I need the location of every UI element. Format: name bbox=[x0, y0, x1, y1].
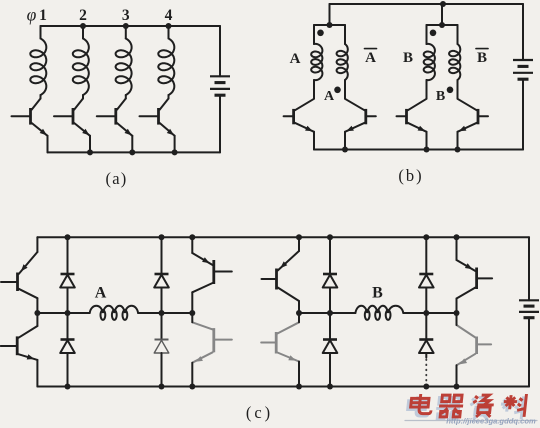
node (c) top rail junction x162 bbox=[159, 234, 165, 240]
node (a) top rail junction 4 bbox=[166, 23, 172, 29]
transistor Q2 bbox=[54, 99, 90, 136]
node (a) top rail junction 2 bbox=[80, 23, 86, 29]
node (b) bottom rail junction at Q7 bbox=[424, 147, 430, 153]
wire (b) bottom rail bbox=[314, 149, 523, 151]
wire (b) Q7 emitter drop bbox=[426, 132, 428, 150]
label 4 bbox=[165, 7, 173, 24]
wire (a) branch 4 emitter drop bbox=[174, 136, 176, 153]
wire (c) right rail lower segment bbox=[528, 318, 530, 387]
wire (b) winding A left leg lower bbox=[313, 80, 315, 99]
node (b) top rail junction at winding B bbox=[440, 1, 446, 7]
watermark shadow bbox=[407, 396, 525, 419]
diode D5 bbox=[323, 274, 338, 288]
svg-text:A: A bbox=[95, 285, 107, 302]
node (c) bottom rail junction x456 bbox=[454, 384, 460, 390]
node (c) bottom rail junction x162 bbox=[159, 384, 165, 390]
wire (c) Q15 collector lead bbox=[456, 299, 458, 314]
inductor A bbox=[90, 306, 138, 320]
node (c) top rail junction x192 bbox=[189, 234, 195, 240]
node (c) bottom rail junction x299 bbox=[296, 384, 302, 390]
node (c) bottom rail junction x68 bbox=[65, 384, 71, 390]
svg-text:2: 2 bbox=[79, 7, 87, 24]
label (c) bbox=[246, 403, 273, 422]
wire (c) Q14 collector lead bbox=[298, 313, 300, 322]
transistor Q1 bbox=[12, 99, 48, 136]
label 1 bbox=[39, 7, 47, 24]
wire (b) winding B right leg lower bbox=[457, 80, 459, 99]
battery B3 bbox=[519, 300, 539, 317]
wire (b) top rail bbox=[330, 3, 524, 5]
wire (a) branch 1 top lead bbox=[40, 26, 42, 39]
wire (c) Q13 emitter lead bbox=[298, 237, 300, 251]
wire (c) Q12 collector lead bbox=[191, 313, 193, 322]
node (b) winding A centre tap bbox=[327, 22, 333, 28]
label A (inductor A) bbox=[95, 285, 107, 302]
svg-text:B: B bbox=[372, 285, 383, 302]
label B (winding B left) bbox=[403, 50, 413, 66]
transistor Q10 bbox=[1, 326, 38, 360]
label A (winding A left) bbox=[290, 51, 301, 67]
svg-text:3: 3 bbox=[122, 7, 130, 24]
watermark red text dianqiziliao bbox=[410, 394, 528, 417]
transistor Q8 bbox=[458, 99, 489, 132]
wire (a) right rail lower segment bbox=[219, 95, 221, 152]
label 3 bbox=[122, 7, 130, 24]
wire (a) branch 2 coil-to-collector lead bbox=[82, 95, 84, 99]
node (c) middle rail junction x37 bbox=[34, 310, 40, 316]
svg-text:(c): (c) bbox=[246, 403, 273, 422]
wire (c) diode column x330 upper lead bbox=[329, 237, 331, 274]
wire (b) winding A right leg lower bbox=[344, 80, 346, 99]
svg-text:4: 4 bbox=[165, 7, 173, 24]
diode D6 bbox=[323, 340, 338, 354]
wire (c) diode column x330 mid lead bbox=[329, 288, 331, 340]
label (a) bbox=[106, 169, 128, 188]
svg-text:B: B bbox=[477, 50, 487, 66]
wire (a) branch 1 emitter drop bbox=[47, 136, 49, 153]
wire (b) right rail upper segment bbox=[522, 4, 524, 60]
transistor Q11 bbox=[192, 253, 232, 292]
node (c) bottom rail junction x192 bbox=[189, 384, 195, 390]
wire (c) node B right segment bbox=[403, 312, 456, 314]
node (c) top rail junction x456 bbox=[454, 234, 460, 240]
node (a) top rail junction 3 bbox=[123, 23, 129, 29]
wire (c) Q15 emitter lead bbox=[456, 237, 458, 260]
diode D8 bbox=[419, 340, 434, 354]
node (c) middle rail junction x162 bbox=[159, 310, 165, 316]
wire (c) Q16 emitter drop bbox=[456, 365, 458, 386]
node (b) winding B polarity dot lower bbox=[447, 87, 454, 94]
inductor winding B left half bbox=[424, 44, 435, 80]
node (c) top rail junction x68 bbox=[65, 234, 71, 240]
node (c) top rail junction x330 bbox=[327, 234, 333, 240]
wire (c) Q11 collector lead bbox=[191, 292, 193, 313]
wire (c) diode column x162 mid lead bbox=[161, 288, 163, 340]
wire (c) bottom rail bbox=[37, 386, 529, 388]
svg-text:A: A bbox=[365, 50, 376, 66]
svg-text:B: B bbox=[403, 50, 413, 66]
wire (c) diode column x426 lower lead dotted bbox=[425, 360, 427, 385]
wire (b) winding A left leg upper bbox=[313, 25, 315, 44]
svg-text:A: A bbox=[324, 89, 335, 104]
transistor Q15 bbox=[457, 260, 493, 299]
node (a) bottom rail junction 4 bbox=[172, 149, 178, 155]
inductor L2 bbox=[73, 39, 89, 96]
node (b) winding A polarity dot lower bbox=[334, 87, 341, 94]
wire (c) Q13 collector lead bbox=[298, 301, 300, 313]
label (b) bbox=[398, 166, 423, 185]
wire (c) Q14 emitter drop bbox=[298, 362, 300, 387]
label 2 bbox=[79, 7, 87, 24]
transistor Q6 bbox=[345, 99, 376, 132]
inductor B bbox=[355, 306, 403, 320]
node (c) top rail junction x299 bbox=[296, 234, 302, 240]
label A (winding A lower tap) bbox=[324, 89, 335, 104]
wire (c) diode column x68 upper lead bbox=[67, 237, 69, 274]
wire (c) diode column x68 lower lead bbox=[67, 353, 69, 387]
wire (a) branch 4 coil-to-collector lead bbox=[168, 95, 170, 99]
inductor winding A left half bbox=[311, 44, 322, 80]
wire (c) node A right segment bbox=[138, 312, 192, 314]
transistor Q14 bbox=[261, 322, 299, 361]
node (c) bottom rail junction x426 bbox=[423, 384, 429, 390]
transistor Q5 bbox=[284, 99, 314, 132]
node (c) middle rail junction x192 bbox=[189, 310, 195, 316]
node (b) winding B centre tap bbox=[439, 22, 445, 28]
wire (a) bottom rail bbox=[48, 151, 221, 153]
label Abar (winding A right) bbox=[365, 49, 377, 66]
node (b) bottom rail junction at Q6 bbox=[342, 147, 348, 153]
wire (c) node B left segment bbox=[299, 312, 355, 314]
inductor L1 bbox=[30, 39, 46, 96]
wire (c) diode column x330 lower lead bbox=[329, 353, 331, 387]
label B (inductor B) bbox=[372, 285, 383, 302]
wire (c) diode column x68 mid lead bbox=[67, 288, 69, 340]
transistor Q12 bbox=[192, 322, 232, 362]
node (a) bottom rail junction 3 bbox=[129, 149, 135, 155]
transistor Q7 bbox=[397, 99, 427, 132]
node (b) winding B polarity dot upper bbox=[430, 30, 437, 37]
transistor Q3 bbox=[97, 99, 133, 136]
wire (c) right rail upper segment bbox=[528, 237, 530, 300]
inductor winding A right half bbox=[337, 44, 348, 80]
wire (c) Q10 emitter drop bbox=[36, 360, 38, 387]
wire (b) winding B right leg upper bbox=[457, 25, 459, 44]
wire (c) diode column x426 upper lead bbox=[425, 237, 427, 274]
node (c) bottom rail junction x330 bbox=[327, 384, 333, 390]
svg-text:http://jieee3ga.gddq.com: http://jieee3ga.gddq.com bbox=[446, 417, 536, 426]
inductor winding B right half bbox=[449, 44, 460, 80]
watermark strike line bbox=[405, 420, 537, 422]
diode D2 bbox=[60, 340, 75, 354]
node (b) winding A polarity dot upper bbox=[317, 30, 324, 37]
wire (a) top rail bbox=[41, 25, 221, 27]
wire (a) branch 2 top lead bbox=[82, 26, 84, 39]
label phi bbox=[27, 5, 37, 25]
wire (c) diode column x426 mid lead bbox=[425, 288, 427, 340]
svg-text:(b): (b) bbox=[398, 166, 423, 185]
label Bbar (winding B right) bbox=[476, 49, 488, 66]
svg-text:1: 1 bbox=[39, 7, 47, 24]
wire (a) branch 3 coil-to-collector lead bbox=[125, 95, 127, 99]
node (c) middle rail junction x330 bbox=[327, 310, 333, 316]
wire (b) right rail lower segment bbox=[522, 79, 524, 149]
wire (b) winding A right leg upper bbox=[344, 25, 346, 44]
label B (winding B lower tap) bbox=[436, 89, 445, 104]
node (c) middle rail junction x68 bbox=[65, 310, 71, 316]
wire (b) winding B left leg lower bbox=[426, 80, 428, 99]
wire (b) winding A centre-tap lead bbox=[329, 4, 331, 25]
wire (a) branch 3 top lead bbox=[125, 26, 127, 39]
wire (c) Q16 collector lead bbox=[456, 313, 458, 325]
wire (c) diode column x162 upper lead bbox=[161, 237, 163, 274]
wire (b) winding B left leg upper bbox=[426, 25, 428, 44]
svg-text:(a): (a) bbox=[106, 169, 128, 188]
wire (c) diode column x426 lower lead solid part bbox=[425, 353, 427, 358]
inductor L3 bbox=[116, 39, 132, 96]
diode D1 bbox=[60, 274, 75, 288]
wire (a) branch 2 emitter drop bbox=[89, 136, 91, 153]
diode D3 bbox=[154, 274, 169, 288]
svg-text:φ: φ bbox=[27, 5, 37, 25]
transistor Q13 bbox=[262, 251, 300, 301]
wire (a) branch 1 coil-to-collector lead bbox=[40, 95, 42, 99]
wire (b) winding B centre-tap lead bbox=[441, 4, 443, 25]
wire (b) Q6 emitter drop bbox=[344, 132, 346, 150]
node (c) middle rail junction x426 bbox=[423, 310, 429, 316]
transistor Q16 bbox=[457, 325, 492, 365]
wire (c) top rail bbox=[37, 236, 529, 238]
watermark url text bbox=[446, 417, 536, 426]
wire (b) Q5 emitter drop bbox=[313, 132, 315, 150]
svg-text:B: B bbox=[436, 89, 445, 104]
diode D4 bbox=[154, 340, 169, 354]
wire (a) branch 4 top lead bbox=[168, 26, 170, 39]
node (c) middle rail junction x456 bbox=[454, 310, 460, 316]
node (c) middle rail junction x299 bbox=[296, 310, 302, 316]
wire (c) Q9 emitter lead bbox=[36, 237, 38, 252]
wire (a) branch 3 emitter drop bbox=[131, 136, 133, 153]
wire (c) node A left segment bbox=[37, 312, 89, 314]
node (b) bottom rail junction at Q8 bbox=[455, 147, 461, 153]
battery B1 bbox=[210, 76, 230, 95]
node (a) bottom rail junction 2 bbox=[87, 149, 93, 155]
battery B2 bbox=[513, 60, 533, 79]
inductor L4 bbox=[158, 39, 174, 96]
wire (c) Q10 collector lead bbox=[36, 313, 38, 326]
diode D7 bbox=[419, 274, 434, 288]
node (c) top rail junction x426 bbox=[423, 234, 429, 240]
wire (c) diode column x162 lower lead bbox=[161, 353, 163, 387]
wire (c) Q11 emitter lead bbox=[191, 237, 193, 253]
transistor Q4 bbox=[140, 99, 175, 136]
wire (b) winding A top bracket bbox=[314, 24, 345, 26]
wire (c) Q9 collector lead bbox=[36, 298, 38, 313]
wire (b) Q8 emitter drop bbox=[457, 132, 459, 150]
wire (a) right rail upper segment bbox=[219, 26, 221, 76]
svg-text:A: A bbox=[290, 51, 301, 67]
wire (c) Q12 emitter drop bbox=[191, 363, 193, 387]
transistor Q9 bbox=[1, 252, 37, 298]
wire (b) winding B top bracket bbox=[427, 24, 458, 26]
